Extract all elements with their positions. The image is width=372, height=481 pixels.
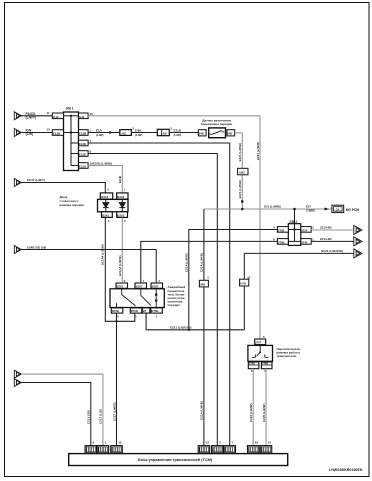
connector I4G in-line: [120, 130, 132, 136]
connector E42 row1 left: [52, 113, 63, 119]
svg-text:C217 (L/B): C217 (L/B): [99, 409, 103, 424]
svg-text:2T6B: 2T6B: [262, 363, 268, 366]
wire E21 drop to TCM pin13: [203, 209, 205, 446]
svg-text:E13E: E13E: [79, 153, 86, 157]
svg-text:C21A (L/W/B): C21A (L/W/B): [200, 253, 204, 272]
svg-text:(L/W): (L/W): [96, 133, 104, 137]
svg-text:C212 (2B): C212 (2B): [87, 410, 91, 424]
wire bottom-left lower to TCM pin9: [21, 383, 91, 446]
wire PA/CK feed to J/B1 pin 11: [21, 115, 52, 117]
wire J/B2 rowB internal: [288, 240, 301, 242]
svg-text:BT: BT: [143, 309, 147, 313]
svg-text:E42: E42: [79, 115, 85, 119]
svg-text:B3A2: B3A2: [117, 195, 124, 199]
svg-text:E21B (L/W/B): E21B (L/W/B): [93, 161, 112, 165]
svg-text:3T2F: 3T2F: [301, 228, 308, 232]
node A9 connector arrow bottom-left lower: [14, 379, 21, 387]
connector relay b4: [151, 308, 163, 313]
svg-text:E21 (L/W/B): E21 (L/W/B): [264, 205, 281, 209]
svg-text:LHWS9DKR0190EH: LHWS9DKR0190EH: [329, 468, 363, 472]
svg-text:C224 (L/B/W): C224 (L/B/W): [249, 403, 253, 422]
wire J/B2 rowB left to relay t2: [141, 241, 278, 283]
arrow direction marker on row2 wire: [109, 131, 112, 134]
svg-text:24B: 24B: [199, 132, 204, 136]
junction dot row2 bus: [70, 131, 72, 133]
svg-text:2T6B: 2T6B: [249, 363, 255, 366]
connector top-right of diode block: [117, 193, 128, 199]
diode block body: [98, 199, 129, 211]
connector 24B right of sensor: [227, 130, 235, 136]
switch S1 park position sensor label: [201, 119, 233, 126]
wire row2 fuse to park sensor: [169, 132, 198, 134]
svg-text:C21A (L/W/B): C21A (L/W/B): [200, 401, 204, 420]
wire J/B2 rowA right to arrow (gray): [311, 229, 354, 231]
connector J/B2 rowA left: [277, 227, 288, 233]
wire J/B2 feed from E21: [294, 209, 296, 224]
connector bottom-right of mode switch: [261, 362, 272, 369]
junction dot J/B2 row A: [293, 228, 295, 230]
connector relay t1: [116, 283, 128, 288]
TCM block Блок управления трансмиссией: [69, 454, 288, 466]
svg-text:BT6B: BT6B: [151, 309, 158, 313]
wire relay b1 to TCM pin10: [116, 313, 118, 446]
svg-text:Блок управления трансмиссией (: Блок управления трансмиссией (ТСМ): [138, 457, 213, 462]
wire row2 through J/B1: [64, 132, 79, 134]
node A4 connector arrow E24B: [14, 246, 21, 254]
connector 24B left of sensor: [198, 130, 206, 136]
node A1 connector arrow top-left PA/CK: [14, 112, 21, 120]
switch S1 park position sensor body: [209, 128, 226, 138]
svg-text:13: 13: [206, 441, 210, 445]
connector J/B2 rowA right: [301, 227, 311, 233]
connector TCM stub pin 22: [247, 446, 259, 453]
svg-text:BT6B: BT6B: [131, 309, 138, 313]
connector 04B on E21 drop: [199, 280, 208, 287]
switch S2 label: [277, 347, 301, 358]
wire J/B1 internal bus: [70, 116, 72, 166]
svg-text:BT6T: BT6T: [152, 284, 159, 288]
svg-text:E1A: E1A: [96, 128, 103, 132]
connector top-left of diode block: [100, 193, 112, 199]
junction dot b1 jog: [115, 320, 117, 322]
wire IGN feed to J/B1 pin 10: [21, 132, 52, 134]
connector relay t2: [135, 283, 147, 288]
connector bottom-left of diode block: [102, 212, 113, 218]
label E1A wire: [96, 128, 104, 137]
svg-text:E221 (L/W/B): E221 (L/W/B): [238, 180, 242, 198]
svg-text:E13B: E13B: [79, 132, 86, 136]
wire diode left pin down to under-relay jog: [105, 217, 135, 321]
terminal mark on drop: [241, 200, 243, 203]
svg-text:E221 (L/W/B): E221 (L/W/B): [256, 142, 260, 160]
connector TCM stub pin 9: [85, 446, 97, 453]
svg-text:SC21 (L/B/G/W): SC21 (L/B/G/W): [321, 249, 343, 253]
wire J/B2 rowB right to arrow: [311, 240, 354, 242]
svg-text:12: 12: [247, 275, 251, 279]
label PA/CK wire: [26, 112, 37, 120]
diode D1 D2 block label: [60, 195, 85, 207]
svg-text:B3A2: B3A2: [102, 213, 109, 217]
svg-text:E13G: E13G: [79, 165, 87, 169]
connector bottom-right of diode block: [117, 212, 128, 218]
connector TCM stub pin 1: [97, 446, 109, 453]
svg-text:E21A4 (L/W/B): E21A4 (L/W/B): [118, 255, 122, 276]
wire J/B2 internal bus: [294, 224, 296, 242]
wire row1 through J/B1: [64, 115, 79, 117]
svg-text:24B: 24B: [227, 132, 232, 136]
svg-text:BT6B: BT6B: [112, 309, 119, 313]
wire mode switch pin6 to TCM pin14 (gray): [265, 369, 267, 446]
svg-text:6C1A4 (L/B/W): 6C1A4 (L/B/W): [101, 244, 105, 265]
wire bus stub row4: [71, 153, 79, 155]
wire row2 from J/B1 to in-line connector: [88, 132, 120, 134]
svg-text:(L/B/Y): (L/B/Y): [26, 116, 37, 120]
svg-text:E21B: E21B: [118, 176, 122, 183]
wire E21 main horizontal (gray): [204, 208, 332, 210]
node A2 connector arrow IGN: [14, 129, 21, 137]
connector bottom-left of mode switch: [248, 362, 259, 369]
svg-text:(L/W): (L/W): [135, 133, 143, 137]
svg-text:G8: G8: [163, 131, 167, 135]
connector E13B row2 left: [52, 130, 63, 136]
wire row1 from J/B1 to mode switch (gray) horizontal: [88, 115, 260, 117]
svg-text:3T4F: 3T4F: [301, 240, 308, 244]
svg-text:E21B: E21B: [174, 128, 182, 132]
svg-text:E24: E24: [306, 204, 311, 208]
wire park sensor to vertical drop (gray): [235, 132, 243, 134]
svg-text:C/WBG: C/WBG: [306, 208, 315, 212]
junction dot E21 x park sensor drop: [241, 208, 244, 211]
connector HB2 in-line on drop: [238, 168, 248, 175]
wire row3 from J/B1 to TCM pin7 drop: [88, 143, 230, 446]
wire bus stub row5: [71, 165, 79, 167]
junction dot row1 bus: [70, 115, 72, 117]
junction dot relay internal upper: [155, 293, 158, 296]
connector J/B2 rowB left: [277, 239, 288, 245]
label IGN wire: [26, 129, 34, 137]
svg-text:C217 (L/W/B): C217 (L/W/B): [112, 402, 116, 421]
wire row1 vertical drop to mode switch (gray): [259, 116, 261, 339]
svg-text:22: 22: [255, 441, 259, 445]
svg-text:15: 15: [90, 112, 94, 116]
junction dot relay internal lower: [155, 299, 158, 302]
svg-text:трансмиссии: трансмиссии: [277, 354, 297, 358]
connector E42 row1 right: [79, 113, 89, 119]
node A3 connector arrow EC47: [14, 179, 21, 187]
wire SC21 horizontal to arrow: [244, 252, 353, 254]
svg-text:C4: C4: [336, 208, 340, 212]
wire J/B2 rowA left to shiftlock net: [189, 230, 278, 330]
wire J/B2 rowA internal: [288, 229, 301, 231]
svg-text:(L/B): (L/B): [26, 132, 34, 136]
wire row5 from J/B1 to diode (gray): [88, 166, 122, 193]
connector relay b1: [111, 308, 123, 313]
svg-text:BT6T: BT6T: [117, 284, 124, 288]
relay K1 body: [110, 289, 164, 308]
wire bottom-left upper to TCM pin1 (gray): [21, 374, 103, 446]
switch S1 contacts: [210, 131, 225, 135]
svg-text:E42: E42: [53, 115, 59, 119]
connector TCM stub pin 13: [198, 446, 210, 453]
wire EC47 to diode left pin: [21, 183, 105, 193]
connector relay b2: [130, 308, 142, 313]
arrow to PCM: [325, 208, 330, 211]
connector E13G row5 right: [79, 163, 89, 169]
svg-text:EC47 (L/B/Y): EC47 (L/B/Y): [27, 178, 45, 182]
connector C4 to PCM: [332, 205, 344, 212]
svg-text:BT6T: BT6T: [136, 284, 143, 288]
node A6 connector arrow right rowB: [354, 237, 362, 246]
svg-text:14: 14: [268, 441, 272, 445]
label E24 connector code: [306, 204, 315, 212]
connector top of mode switch: [255, 339, 266, 345]
fuse I G8 in-line connector: [157, 129, 169, 135]
node A5 connector arrow right rowA: [354, 226, 362, 235]
svg-text:передач: передач: [168, 303, 181, 307]
svg-text:E4B: E4B: [135, 128, 142, 132]
switch S2 transmission mode switch body: [248, 345, 273, 361]
label E21B wire: [174, 128, 182, 137]
svg-text:MG PCM: MG PCM: [346, 208, 359, 212]
svg-text:E24B S/D S/B: E24B S/D S/B: [27, 245, 47, 249]
svg-text:J/B 1: J/B 1: [66, 107, 74, 111]
wire SC21 vertical drop: [243, 253, 245, 329]
connector E13B row2 right: [79, 130, 89, 136]
node A8 connector arrow bottom-left upper: [14, 370, 21, 378]
svg-text:C225 (L/B/W): C225 (L/B/W): [262, 403, 266, 422]
wire bus stub row3: [71, 142, 79, 144]
connector E13D row3 right: [79, 140, 89, 146]
svg-text:B3A2: B3A2: [101, 195, 108, 199]
svg-text:3T4B: 3T4B: [278, 240, 285, 244]
wire relay b3 down right and up to SC21: [146, 313, 244, 330]
svg-text:2T6T: 2T6T: [255, 341, 262, 345]
svg-text:10: 10: [118, 441, 122, 445]
label E4B wire: [135, 128, 143, 137]
wire row4 from J/B1 to TCM pin3 drop: [88, 154, 217, 446]
junction dot mode switch pole: [259, 351, 261, 353]
connector relay b3: [142, 308, 150, 313]
svg-text:HB2: HB2: [239, 170, 245, 174]
relay K1 internal contacts: [117, 289, 157, 308]
svg-text:3T2B: 3T2B: [278, 228, 285, 232]
svg-text:E21A (L/W/B): E21A (L/W/B): [185, 253, 189, 272]
wire mode switch pin3 to TCM pin22 (gray): [252, 369, 254, 446]
svg-text:04B: 04B: [200, 282, 205, 286]
svg-text:B3A2: B3A2: [117, 213, 124, 217]
connector H7B on SC21 drop: [240, 279, 249, 286]
relay K1 label: [168, 285, 186, 307]
diode D1: [103, 199, 109, 212]
svg-text:2Z14-B5: 2Z14-B5: [320, 237, 332, 241]
svg-text:E221 (L/W/B): E221 (L/W/B): [238, 143, 242, 161]
svg-text:(L/W): (L/W): [174, 133, 182, 137]
connector J/B2 rowB right: [301, 239, 311, 245]
svg-text:2Z15-B5: 2Z15-B5: [320, 226, 332, 230]
switch S2 internals: [252, 345, 269, 357]
svg-text:E13B: E13B: [53, 132, 60, 136]
connector TCM stub pin 3: [212, 446, 224, 453]
connector relay t3: [151, 283, 163, 288]
junction dot shiftlock net: [188, 329, 190, 331]
junction dot E21 x J/B2 feed: [293, 208, 296, 211]
wire diode right pin to relay t1 (gray): [121, 217, 123, 283]
connector TCM stub pin 10: [111, 446, 123, 453]
wire E24B to relay t3: [21, 250, 156, 284]
diode D2: [119, 199, 125, 212]
wire row2 connector to fuse: [131, 132, 157, 134]
svg-text:11: 11: [47, 111, 50, 115]
svg-text:блокировки передач: блокировки передач: [201, 122, 233, 126]
node A7 connector arrow right SC21: [354, 249, 362, 258]
connector E13E row4 right: [79, 151, 89, 157]
connector TCM stub pin 14: [260, 446, 272, 453]
svg-text:I4G: I4G: [122, 132, 127, 136]
svg-text:H7B: H7B: [240, 281, 245, 285]
svg-text:10: 10: [47, 128, 51, 132]
connector TCM stub pin 7: [224, 446, 236, 453]
wire park sensor vertical drop (gray): [241, 133, 243, 209]
svg-text:E13D: E13D: [79, 142, 86, 146]
svg-text:режима передач: режима передач: [60, 203, 85, 207]
